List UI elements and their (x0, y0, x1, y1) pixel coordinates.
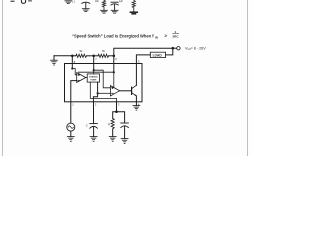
wire: Vcc to comparator top (78, 71, 114, 73)
pin 7 stub (93, 56, 95, 70)
label 5k (left) (80, 49, 83, 53)
pin label 1 (72, 102, 74, 106)
charge pump block (87, 74, 99, 82)
wire: V+ rail up and right (114, 48, 173, 56)
pin label 2 (95, 102, 97, 106)
svg-text:≥: ≥ (165, 33, 168, 38)
wire pin 2 down (93, 102, 95, 124)
value label 1uF (cut-off) (119, 1, 124, 3)
op-amp U1B (110, 86, 119, 96)
AC source (67, 123, 75, 131)
svg-text:0.1: 0.1 (72, 2, 76, 4)
page column border right (247, 0, 249, 156)
wire to resistor R (113, 112, 117, 119)
fragment dash left (cut-off figure above) (11, 0, 14, 2)
wire to pin 6 node (109, 55, 114, 57)
svg-text:10k: 10k (95, 1, 100, 3)
node pin2 inner (97, 92, 99, 94)
wire source to ground (70, 131, 72, 136)
ground pin 4 (133, 106, 140, 111)
pin label 8 (74, 60, 76, 64)
wire: comparator out to charge pump (86, 77, 87, 79)
wire: charge pump output to pin 3 (90, 82, 116, 102)
wire: LOAD to pin 5 (136, 55, 150, 64)
svg-text:LOAD: LOAD (153, 53, 163, 57)
pin label 3 (118, 102, 120, 106)
node pin8 inner (71, 67, 73, 69)
label 5k (right) (102, 49, 105, 53)
value label 10k (cut-off) (95, 1, 100, 3)
wire: pin1 to comparator - input (71, 81, 77, 102)
capacitor C2 (121, 123, 129, 128)
pin 8 stub (71, 56, 73, 69)
fragment dash right (cut-off) (29, 0, 32, 2)
ground below R (109, 137, 116, 142)
svg-text:1µF: 1µF (119, 1, 124, 3)
svg-text:PUMP: PUMP (91, 80, 97, 82)
wire: ground to divider rail (54, 55, 76, 57)
svg-text:“Speed Switch” Load is Energiz: “Speed Switch” Load is Energized When f (72, 34, 154, 39)
label CHARGE PUMP (89, 75, 98, 81)
node pin7 inner (93, 69, 95, 71)
ground below capacitor (82, 9, 89, 12)
pin label 7 (95, 57, 97, 61)
capacitor (cut-off figure above) (82, 2, 90, 9)
svg-text:5: 5 (138, 60, 140, 64)
label LOAD (153, 53, 163, 57)
pin 6 stub (113, 56, 115, 72)
caption fraction bar (173, 33, 179, 35)
ground top-left of main schematic (51, 56, 58, 65)
svg-text:R: R (108, 122, 110, 126)
IC outline LM2907 (65, 64, 143, 102)
ground (cut-off figure above, left) (65, 1, 72, 4)
pin label 6 (115, 57, 117, 61)
svg-text:C: C (86, 124, 88, 128)
wire: op-amp out to transistor base (120, 90, 132, 92)
ground below capacitor 2 (111, 10, 118, 13)
ground below C (90, 137, 97, 142)
wire: charge pump cap port to pin 2 (93, 82, 97, 102)
wire: pin8 to comparator + input (72, 69, 76, 75)
wire: pin2 node to op-amp - input (98, 92, 111, 94)
wire resistor to ground (112, 129, 114, 137)
node pin6 rail junction (113, 55, 116, 58)
wide ground bar below resistor 2 (130, 12, 137, 14)
node V+ junction (172, 47, 175, 50)
svg-text:6: 6 (115, 57, 117, 61)
node RC junction (115, 110, 118, 113)
node pin7 rail junction (92, 55, 95, 58)
wire to supply terminal (173, 47, 177, 49)
pin label 4 (138, 102, 140, 106)
wire capacitor C2 to ground (124, 126, 126, 139)
fragment U-shaped symbol bottom (cut-off) (21, 0, 25, 3)
pin label 5 (138, 60, 140, 64)
caption: "Speed Switch" Load is Energized When fIN >= 1/2RC (72, 30, 179, 40)
svg-text:3: 3 (118, 102, 120, 106)
svg-text:5k: 5k (80, 49, 83, 53)
node pin6 inner (113, 71, 115, 73)
wire: V+ junction down to LOAD (166, 48, 173, 55)
wire to timing capacitor (117, 112, 125, 123)
label R (108, 122, 110, 126)
wire pin 1 down (70, 102, 72, 123)
comparator U1A (77, 73, 86, 83)
wire: Vcc to op-amp top (113, 72, 115, 87)
resistor 2 (cut-off figure above) (132, 0, 135, 12)
wire: emitter to pin 4 (135, 96, 137, 106)
svg-text:= 8 - 26V: = 8 - 26V (191, 46, 207, 50)
wire pin 3 down (116, 101, 118, 111)
ground below source (67, 137, 74, 142)
wire capacitor to ground (93, 127, 95, 137)
svg-text:CHARGE: CHARGE (89, 75, 98, 78)
ground below resistor (101, 10, 108, 13)
page column border left (2, 0, 4, 156)
capacitor C (90, 124, 98, 129)
svg-text:5k: 5k (102, 49, 105, 53)
svg-text:2: 2 (95, 102, 97, 106)
label C (86, 124, 88, 128)
wire: pin7 into charge pump top (93, 70, 95, 74)
svg-text:2RC: 2RC (173, 34, 180, 38)
transistor Q1 (132, 85, 137, 96)
value label 0.1 (cut-off) (72, 2, 76, 4)
terminal VCC (177, 47, 180, 50)
load box (150, 52, 165, 57)
svg-text:IN: IN (155, 36, 158, 40)
resistor (cut-off figure above) (102, 0, 105, 10)
node pin8 rail junction (71, 55, 74, 58)
resistor top 5k (right) (98, 54, 109, 57)
resistor R top 5k (left) (76, 54, 87, 57)
wire: pin7 to op-amp + input (94, 70, 111, 88)
ground below C2 (121, 139, 128, 144)
label VCC = 8-28V (185, 46, 206, 51)
capacitor 2 (cut-off figure above) (111, 2, 118, 10)
wire: collector to pin 5 (135, 64, 137, 86)
svg-text:1: 1 (72, 102, 74, 106)
resistor R (111, 118, 114, 129)
svg-text:1: 1 (175, 30, 177, 34)
svg-text:7: 7 (95, 57, 97, 61)
wire between divider resistors (87, 55, 98, 57)
